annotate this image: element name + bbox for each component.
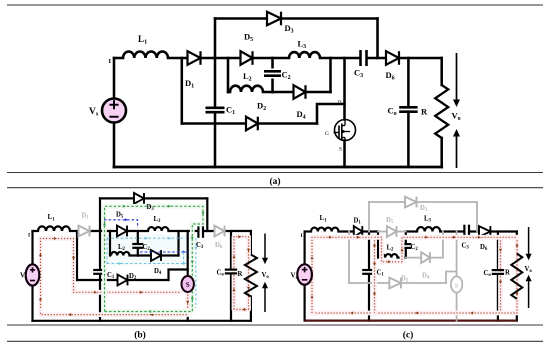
wire (a): Co top lead <box>407 58 410 105</box>
wire (b): node down to C1 <box>99 231 101 268</box>
wire (a): bottom rail <box>114 166 442 169</box>
wire (b): C1 to bottom rail <box>99 275 101 320</box>
wire (a): C1 down to bottom rail <box>214 114 217 167</box>
svg-text:I: I <box>28 233 30 239</box>
diode D5 (a) <box>241 51 253 65</box>
diode D6 (c) <box>479 226 490 237</box>
diode D3 (b) <box>134 193 144 204</box>
svg-text:S: S <box>455 283 459 290</box>
capacitor Co (a) <box>399 107 417 111</box>
frame rule top <box>7 4 543 6</box>
resistor R (c) <box>511 254 522 299</box>
wire (c): Co top lead <box>497 232 499 269</box>
wire (a): source top lead <box>113 58 116 99</box>
diode D4 (b) <box>151 250 161 261</box>
current path (b): cyan lower path <box>107 262 186 265</box>
switch S (b) <box>182 276 194 292</box>
wire (a): main line L1 to L3 <box>168 57 289 60</box>
wire (c): C2 node to L3 <box>406 230 417 232</box>
capacitor C2 (a) <box>264 71 281 75</box>
frame rule bottom <box>7 340 543 342</box>
wire (b): source top lead <box>31 231 33 265</box>
capacitor C1 (a) <box>206 108 225 112</box>
capacitor C1 (b) <box>93 270 107 274</box>
current path (c): red through L2 C2 L3 C3 D6 <box>375 236 518 263</box>
wire (b): main line D1 to L3 <box>91 230 148 232</box>
svg-text:S: S <box>339 147 342 153</box>
diode D5 (c) inactive <box>387 226 397 237</box>
voltage source Vs (c) <box>297 264 312 284</box>
capacitor Co (b) <box>225 270 237 274</box>
wire (b): main line L3 to C3 <box>169 230 198 232</box>
wire (a): L2 left lead <box>228 91 230 94</box>
frame rule below (a) caption <box>7 187 543 189</box>
current path (b): red input loop <box>39 237 181 311</box>
inductor L2 (a) <box>230 86 263 92</box>
diode D2 (a) <box>246 117 258 131</box>
wire (c): gray D2 step to drain <box>446 272 457 284</box>
wire (a): D1 anode down to D2 branch <box>181 58 184 124</box>
wire (a): C2 bottom lead <box>271 80 274 92</box>
wire (c): D1 to L2 drop node <box>363 230 379 232</box>
wire (b): source bottom lead <box>31 286 33 321</box>
svg-text:G: G <box>325 131 329 137</box>
current path (b): cyan upper path <box>107 237 186 240</box>
wire (c): R top lead <box>516 232 518 254</box>
wire (b): L1 to D1 lead <box>70 230 78 232</box>
wire (a): D3 top branch <box>215 17 378 20</box>
wire (c): gray D3 top branch <box>369 201 477 203</box>
svg-text:R: R <box>505 270 510 277</box>
wire (a): L1 left lead <box>114 57 123 60</box>
diode D2 (b) <box>118 275 128 286</box>
wire (c): C2 top lead <box>405 232 407 243</box>
wire (a): D2 branch line <box>182 122 317 125</box>
wire (c): L1 left lead <box>305 230 311 232</box>
wire (c): R bottom lead <box>516 299 518 321</box>
wire (a): D4 cathode up to main line <box>329 58 332 92</box>
svg-text:(b): (b) <box>134 330 146 341</box>
wire (b): D2 step to switch drain <box>169 270 188 281</box>
wire (c): gray switch drain vertical <box>456 232 458 277</box>
diode D1 (c) <box>354 226 363 237</box>
wire (c): C1 to bottom rail <box>368 276 370 321</box>
current path (b): red output loop Co-R <box>233 235 251 311</box>
svg-text:S: S <box>186 281 190 289</box>
resistor R (a) <box>435 85 448 138</box>
tint region (b) cell <box>101 234 195 266</box>
wire (b): D4 line <box>138 254 179 256</box>
wire (c): L1 to D1 <box>339 230 354 232</box>
wire (a): L2 to C2 node <box>263 91 273 94</box>
current path (b): blue D5 path <box>104 218 138 228</box>
inductor L3 (c) <box>417 227 440 231</box>
current path (b): blue D4 path <box>140 251 188 254</box>
wire (a): D3 branch right vertical <box>376 19 379 59</box>
wire (b): D4 cathode up to main line <box>177 231 179 256</box>
wire (c): L2 drop <box>377 232 379 258</box>
wire (c): C2 bottom lead <box>405 250 407 258</box>
wire (c): gray switch source vertical <box>456 293 458 321</box>
diode D1 (b) inactive <box>79 226 90 237</box>
wire (b): Co bottom lead <box>230 275 232 321</box>
wire (b): main line C3 to output corner <box>204 230 251 232</box>
svg-text:R: R <box>238 271 243 278</box>
diode D6 (b) inactive <box>215 226 225 237</box>
current path (c): red down R and return along bottom <box>312 237 519 314</box>
transistor S (a) MOSFET <box>334 120 356 142</box>
wire (c): gray node up to D3 branch <box>368 202 370 232</box>
wire (c): L2 to C2 node <box>398 257 406 259</box>
wire (a): D4 line <box>273 91 331 94</box>
current path (b): red return along bottom <box>41 295 190 317</box>
wire (c): source top lead <box>304 232 306 265</box>
wire (c): source bottom lead <box>304 285 306 321</box>
wire (a): D2 branch step up to switch drain <box>317 104 345 124</box>
inductor L1 (c) <box>311 228 339 232</box>
wire (a): C2 top lead <box>271 58 274 67</box>
wire (b): bottom rail <box>33 320 251 322</box>
current path (c): red from source along top <box>311 236 375 313</box>
diode D1 (a) <box>188 51 201 65</box>
wire (a): main line C3 to output corner <box>368 57 442 60</box>
output voltage arrows Vo (a) <box>454 53 458 168</box>
inductor L3 (b) <box>148 227 168 231</box>
wire (c): gray D2 branch line <box>349 282 446 284</box>
diode D4 (a) <box>294 85 306 99</box>
wire (c): gray D4 line <box>406 257 443 259</box>
wire (b): R bottom lead <box>250 297 252 321</box>
current path (c): red charging C1 <box>373 237 376 313</box>
wire (c): C3 to output corner <box>470 230 517 232</box>
wire (a): R bottom lead <box>440 138 443 167</box>
wire (a): node A down to C1 <box>214 58 217 106</box>
current path (b): cyan left connector <box>106 238 108 263</box>
diode D5 (b) <box>117 226 127 237</box>
diode D3 (c) inactive <box>405 197 417 208</box>
wire (a): Co bottom lead <box>407 114 410 167</box>
svg-text:I: I <box>301 233 303 239</box>
wire (b): L2 drop <box>109 231 111 256</box>
wire (c): bottom rail (highlighted maroon) <box>305 319 517 321</box>
resistor R (b) <box>245 255 257 297</box>
wire (b): L1 left lead <box>33 230 39 232</box>
voltage source Vs (b) <box>26 264 40 285</box>
diode D2 (c) inactive <box>389 278 401 289</box>
wire (b): node up to D3 branch <box>99 198 101 231</box>
current path (c): red charging Co <box>499 237 502 313</box>
svg-text:(c): (c) <box>403 330 414 341</box>
inductor L1 (a) <box>123 52 168 58</box>
wire (c): Co bottom lead <box>497 276 499 321</box>
wire (b): C2 top lead <box>137 231 139 242</box>
frame rule above (b)(c) caption <box>7 324 543 326</box>
wire (a): node A up to D3 branch <box>214 19 217 59</box>
capacitor C1 (c) <box>362 270 376 274</box>
wire (b): R top lead <box>250 231 252 255</box>
wire (b): switch source vertical <box>187 292 189 321</box>
voltage source Vs (a) <box>102 99 126 123</box>
wire (b): Co top lead <box>230 231 232 268</box>
wire (c): node down to C1 <box>368 232 370 269</box>
output voltage arrows Vo (b) <box>263 234 267 313</box>
wire (a): L2 drop from main line <box>227 58 230 92</box>
capacitor C3 (b) <box>198 224 203 238</box>
wire (c): gray D3 right vertical <box>476 202 478 232</box>
wire (b): switch drain vertical <box>187 231 189 276</box>
wire (a): R top lead <box>440 58 443 85</box>
wire (b): D1 anode down to D2 branch <box>76 231 78 280</box>
capacitor C3 (c) <box>464 225 469 239</box>
svg-text:R: R <box>421 107 428 117</box>
wire (b): C2 bottom lead <box>137 250 139 256</box>
capacitor C3 (a) <box>361 50 367 66</box>
capacitor C2 (c) <box>400 244 411 248</box>
wire (c): L3 to C3 <box>440 230 463 232</box>
wire (b): D3 top branch <box>100 197 207 199</box>
inductor L3 (a) <box>289 52 320 58</box>
inductor L1 (b) <box>38 226 70 231</box>
current path (b): cyan right vertical <box>194 238 197 308</box>
wire (a): switch source vertical <box>343 141 346 168</box>
wire (a): switch drain vertical <box>343 58 346 120</box>
wire (c): gray D1 anode down to D2 branch <box>348 232 350 284</box>
current path (b): green D3 loop <box>103 205 205 313</box>
inductor L2 (b) <box>111 252 130 256</box>
wire (b): D3 branch right vertical <box>206 198 208 231</box>
wire (c): gray D4 up to main line <box>442 232 444 258</box>
switch S (c) inactive <box>451 276 462 292</box>
diode D6 (a) <box>386 51 399 65</box>
output voltage arrows Vo (c) <box>527 227 531 308</box>
wire (b): D2 branch line <box>77 279 169 281</box>
wire (c): gray main segment through D5 <box>378 231 406 233</box>
inductor L2 (c) <box>379 254 397 258</box>
diode D4 (c) inactive <box>421 252 430 263</box>
capacitor Co (c) <box>492 270 504 274</box>
capacitor C2 (b) <box>132 244 143 248</box>
svg-text:D: D <box>338 100 342 106</box>
current path (b): cyan cell right connector <box>183 252 185 264</box>
svg-text:(a): (a) <box>269 176 280 187</box>
diode D3 (a) <box>267 12 281 26</box>
frame rule above (a) caption <box>7 172 543 174</box>
wire (b): L2 to C2 node <box>130 254 138 256</box>
wire (a): source bottom lead <box>113 122 116 167</box>
wire (a): main line L3 to C3 <box>320 57 359 60</box>
